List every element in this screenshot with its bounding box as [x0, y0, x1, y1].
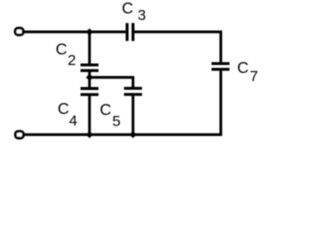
capacitor C5 plates: [124, 87, 142, 90]
capacitor C4 plates: [81, 87, 99, 90]
svg-text:C: C: [58, 101, 70, 118]
capacitor C2 plates: [81, 63, 99, 66]
svg-text:7: 7: [250, 68, 258, 85]
wire bottom: [23, 133, 222, 136]
svg-text:2: 2: [68, 52, 76, 69]
wire node B to C5 branch corner: [90, 76, 134, 79]
junction node A: [86, 28, 93, 35]
wire top from C3 to right corner: [134, 31, 221, 34]
wire C2 to node B: [88, 72, 91, 87]
capacitor C3 plates: [126, 23, 129, 41]
svg-text:C: C: [237, 60, 249, 77]
svg-text:C: C: [56, 41, 68, 58]
junction node B: [86, 74, 93, 81]
svg-text:5: 5: [112, 113, 120, 130]
wire top from terminal to C3: [23, 31, 126, 34]
wire C4 to bottom: [88, 96, 91, 135]
junction bottom C4: [86, 131, 93, 138]
wire C5 branch corner down to C5: [132, 76, 135, 87]
wire junction A down to C2: [88, 32, 91, 64]
terminal bottom-left: [15, 131, 23, 138]
wire right vertical down to C7: [219, 31, 222, 63]
svg-text:4: 4: [69, 113, 77, 130]
junction bottom C5: [130, 131, 137, 138]
svg-text:C: C: [100, 102, 112, 119]
capacitor C7 plates: [212, 62, 230, 65]
svg-text:C: C: [122, 1, 134, 18]
wire C7 to bottom wire: [219, 71, 222, 135]
svg-text:3: 3: [138, 7, 146, 24]
wire C5 to bottom: [132, 96, 135, 135]
terminal top-left: [15, 28, 23, 35]
